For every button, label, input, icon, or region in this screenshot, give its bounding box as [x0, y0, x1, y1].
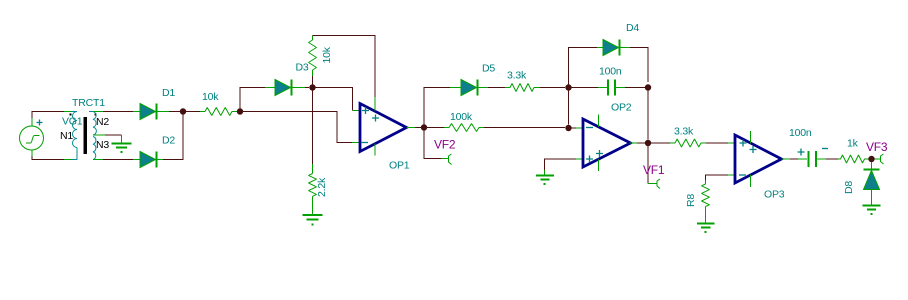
diode D5 — [450, 87, 461, 89]
wire ground to OP2 noninverting — [545, 159, 577, 170]
svg-text:100n: 100n — [599, 66, 622, 78]
OP1 top supply stub — [374, 97, 376, 111]
wire node D to R4 100k row — [427, 127, 444, 129]
capacitor C1 100n — [598, 87, 607, 89]
svg-text:2.2k: 2.2k — [316, 177, 328, 197]
svg-text:D2: D2 — [162, 135, 175, 147]
svg-text:3.3k: 3.3k — [674, 126, 694, 138]
svg-text:OP2: OP2 — [611, 102, 632, 114]
svg-text:N2: N2 — [96, 116, 109, 128]
svg-text:VF2: VF2 — [434, 138, 456, 152]
svg-text:OP1: OP1 — [389, 160, 410, 172]
OP3 output pin — [782, 158, 791, 160]
svg-text:D3: D3 — [296, 62, 309, 74]
resistor R7 1k — [838, 155, 869, 163]
svg-text:VG1: VG1 — [62, 116, 83, 128]
transformer polarity dot N2 — [95, 114, 97, 116]
OP1 bottom supply stub — [374, 144, 376, 156]
wire node B to OP1 inverting jog — [243, 112, 352, 143]
svg-text:VF3: VF3 — [866, 140, 888, 154]
node H — [645, 140, 651, 146]
node G — [645, 84, 651, 90]
resistor R3 2.2k vertical — [312, 164, 314, 174]
svg-text:N3: N3 — [96, 139, 109, 151]
wire R5 to node E — [540, 87, 565, 89]
probe VF3 hook — [875, 158, 881, 160]
transformer secondary pin bottom — [93, 159, 103, 161]
wire R8 to OP3 inverting — [706, 175, 729, 180]
wire node B up to D3 — [240, 88, 265, 109]
wire OP2 output to node H — [637, 142, 645, 144]
OP2 noninverting pin — [576, 158, 583, 160]
VG1 plus mark — [37, 120, 43, 126]
wire R6 to OP3 noninverting — [706, 142, 728, 144]
node B — [237, 108, 243, 114]
wire node H down to probe VF1 — [647, 146, 649, 184]
op-amp OP1 — [360, 104, 407, 152]
transformer core — [84, 117, 88, 154]
svg-text:100k: 100k — [450, 111, 473, 123]
wire R4 to node F — [484, 127, 565, 129]
node D — [421, 124, 427, 130]
OP1 inverting pin — [352, 142, 360, 144]
diode D4 — [597, 47, 603, 49]
wire C1 to node G — [625, 87, 645, 89]
svg-text:R8: R8 — [685, 194, 697, 207]
svg-text:10k: 10k — [202, 91, 219, 103]
wire node E to capacitor C1 — [572, 87, 599, 89]
OP2 output pin — [630, 142, 638, 144]
probe VF1 hook — [648, 183, 657, 185]
wire D3 to node C — [305, 87, 309, 89]
wire node G down to OP2 output node — [647, 91, 649, 140]
svg-text:VF1: VF1 — [643, 163, 665, 177]
OP1 noninverting pin — [353, 110, 361, 112]
transformer center tap pin — [93, 134, 105, 136]
svg-text:3.3k: 3.3k — [507, 70, 527, 82]
wire N2 to D1 — [103, 111, 133, 113]
wire center tap to ground — [105, 134, 122, 136]
resistor R2 10k feedback vertical — [312, 76, 314, 85]
wire OP1 output to node D — [415, 127, 421, 129]
svg-text:D1: D1 — [162, 87, 175, 99]
OP3 noninverting pin — [728, 142, 735, 144]
resistor R6 3.3k — [670, 139, 706, 147]
voltage source VG1 circle — [20, 126, 44, 150]
wire C2 to R7 — [826, 158, 838, 160]
probe VF2 hook — [441, 158, 449, 160]
svg-text:1k: 1k — [847, 138, 859, 150]
ground below D8 — [863, 206, 881, 210]
OP2 top supply stub — [598, 115, 600, 127]
OP3 bottom supply stub — [750, 175, 752, 187]
wire node E up to D4 — [569, 48, 598, 85]
wire D4 to right feedback corner — [630, 48, 648, 83]
wire OP3 output to capacitor C2 — [790, 158, 798, 160]
svg-text:10k: 10k — [321, 46, 333, 63]
wire N3 to D2 — [103, 159, 133, 161]
wire node A to R1 — [186, 111, 200, 113]
node I — [868, 156, 874, 162]
VG1 waveform symbol — [26, 136, 40, 144]
ground for OP2 noninverting — [536, 176, 554, 180]
transformer primary pin bottom — [71, 148, 77, 160]
ground below R3 — [312, 196, 314, 214]
svg-text:100n: 100n — [789, 127, 812, 139]
op-amp OP2 — [583, 119, 631, 167]
diode D1 — [133, 111, 140, 113]
svg-text:TRCT1: TRCT1 — [72, 97, 105, 109]
OP3 inverting pin — [728, 174, 735, 176]
resistor R4 100k — [444, 124, 484, 132]
node A — [180, 108, 186, 114]
diode D3 — [265, 87, 275, 89]
wire D1 to node A — [169, 111, 180, 113]
wire node E to node F — [568, 91, 570, 125]
svg-text:OP3: OP3 — [764, 189, 785, 201]
op-amp OP3 — [735, 135, 782, 183]
wire source bottom to transformer — [32, 156, 64, 160]
wire node C to OP1 noninverting — [316, 88, 353, 111]
resistor R8 vertical — [705, 180, 707, 184]
wire D2 up to node A — [163, 115, 183, 160]
wire node D up to D5 — [424, 88, 450, 125]
wire node C down to R3 — [312, 91, 314, 165]
OP1 output pin — [407, 127, 416, 129]
transformer secondary winding N3 — [93, 137, 96, 160]
VG1 bottom pin — [31, 150, 33, 156]
transformer TRCT1 primary pin top — [64, 111, 71, 113]
wire node F to OP2 inverting — [572, 127, 577, 129]
ground below R8 — [705, 207, 707, 223]
svg-text:D4: D4 — [626, 22, 639, 34]
transformer secondary winding N2 — [93, 112, 96, 136]
OP3 top supply stub — [750, 131, 752, 143]
node E — [565, 84, 571, 90]
transformer polarity dot N1 — [70, 114, 72, 116]
wire source top to transformer — [32, 112, 64, 119]
ground at center tap — [121, 135, 123, 143]
svg-text:N1: N1 — [60, 130, 73, 142]
transformer TRCT1 primary winding N1 — [73, 112, 78, 148]
diode D8 vertical — [871, 162, 873, 169]
wire D5 to R5 — [488, 87, 505, 89]
svg-text:D8: D8 — [843, 181, 855, 194]
node C — [309, 84, 315, 90]
diode D2 — [133, 159, 140, 161]
wire node D down to probe VF2 — [424, 131, 441, 159]
capacitor C2 100n polarized — [798, 158, 807, 160]
node F — [565, 125, 571, 131]
resistor R1 10k — [200, 108, 237, 116]
OP2 bottom supply stub — [598, 159, 600, 171]
resistor R5 3.3k — [505, 84, 540, 92]
wire feedback top to OP1 supply pin — [313, 36, 376, 98]
VG1 top pin — [31, 118, 33, 126]
transformer secondary pin top — [89, 111, 93, 113]
svg-text:D5: D5 — [482, 63, 495, 75]
wire node H to R6 — [651, 142, 670, 144]
